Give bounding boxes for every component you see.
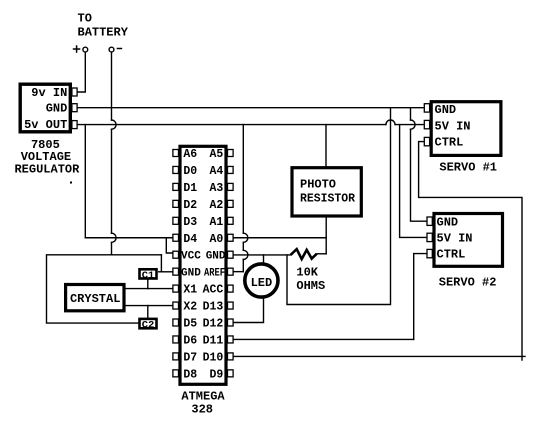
capacitor C1 box [140, 269, 157, 278]
svg-text:AREF: AREF [204, 267, 225, 279]
wire: LED bottom to D12 pin [233, 297, 263, 323]
wire: AREF pin stub to 5V vertical [233, 271, 243, 273]
svg-text:9v IN: 9v IN [31, 86, 67, 100]
voltage regulator U1 box [20, 84, 70, 132]
wire: C1 bottom to X1 wire [147, 280, 149, 289]
photoresistor R2 box [292, 168, 361, 216]
svg-text:RESISTOR: RESISTOR [300, 191, 356, 205]
LED D1 circle [245, 264, 278, 297]
battery terminal + [73, 45, 81, 53]
svg-text:CTRL: CTRL [435, 136, 464, 150]
svg-text:C2: C2 [142, 320, 155, 332]
ATMEGA left pin stubs [173, 150, 179, 377]
svg-text:10K: 10K [296, 265, 318, 279]
battery terminal circle + [83, 47, 88, 52]
svg-text:D4: D4 [183, 233, 197, 246]
svg-text:REGULATOR: REGULATOR [14, 163, 80, 177]
wire: 5V rail down to AREF (hops over A0 wire and GND wire) [242, 125, 244, 272]
regulator pin GND [72, 104, 77, 112]
svg-text:CRYSTAL: CRYSTAL [70, 292, 120, 306]
wire: 5V feed to D4 pin [85, 237, 173, 239]
svg-text:D10: D10 [203, 351, 224, 364]
regulator pin 9v IN [72, 88, 77, 96]
wire: C2 top to X2 wire [147, 306, 149, 318]
svg-text:A0: A0 [209, 233, 223, 246]
svg-text:D1: D1 [183, 182, 197, 195]
wire hop: battery - over 5V rail [112, 120, 117, 129]
svg-text:D3: D3 [183, 216, 197, 229]
wire hop: 5V-AREF vertical over GND wire [243, 250, 248, 259]
resistor R1 10K zigzag [291, 249, 317, 259]
servo1 pin CTRL [424, 137, 429, 145]
svg-text:D0: D0 [183, 165, 197, 178]
ATMEGA right pin labels [203, 148, 224, 381]
svg-text:5V IN: 5V IN [437, 232, 473, 246]
svg-text:X2: X2 [183, 301, 197, 314]
svg-text:D9: D9 [209, 368, 223, 381]
svg-text:A6: A6 [183, 148, 197, 161]
svg-text:A1: A1 [209, 216, 223, 229]
servo2 pin 5V IN [427, 233, 432, 241]
wire: 5V rail down to photoresistor top [325, 125, 327, 166]
crystal Y1 box [66, 285, 124, 311]
svg-text:GND: GND [46, 102, 68, 116]
svg-text:A5: A5 [209, 148, 223, 161]
svg-text:D6: D6 [183, 334, 197, 347]
servo1 pin GND [424, 104, 429, 112]
wire: C1 right to chip GND pin [159, 271, 173, 273]
svg-text:SERVO #2: SERVO #2 [439, 276, 497, 290]
ATMEGA left pin labels [183, 148, 197, 381]
wire: branch down to VCC pin [166, 238, 173, 253]
wire: crystal ground loop (top, left, bottom to C2) [47, 255, 162, 323]
svg-text:D11: D11 [203, 334, 224, 347]
ATMEGA right pin stubs [228, 150, 234, 377]
wire: D10 pin long run [233, 355, 525, 357]
wire: 10K resistor right lead to divider node [317, 253, 327, 255]
svg-text:5v OUT: 5v OUT [24, 118, 67, 132]
servo1 pin 5V IN [424, 120, 429, 128]
svg-text:X1: X1 [183, 284, 197, 297]
svg-text:5V IN: 5V IN [435, 119, 471, 133]
svg-text:ACC: ACC [203, 284, 224, 297]
svg-text:D5: D5 [183, 318, 197, 331]
svg-text:GND: GND [181, 267, 201, 279]
svg-text:GND: GND [206, 250, 226, 262]
servo2 pin GND [427, 217, 432, 225]
wire: ground loop right drop to C1/GND pin wire [160, 255, 162, 272]
wire: servo #2 CTRL to D11 [414, 254, 427, 340]
svg-text:ATMEGA: ATMEGA [181, 389, 225, 403]
svg-text:A2: A2 [209, 199, 223, 212]
svg-text:D13: D13 [203, 301, 224, 314]
svg-text:D7: D7 [183, 351, 197, 364]
servo M2 box [434, 214, 503, 267]
svg-text:SERVO #1: SERVO #1 [439, 160, 497, 174]
wire: 5V drop from 5V rail down at x=85.3 [84, 125, 86, 238]
svg-text:D12: D12 [203, 318, 224, 331]
svg-text:CTRL: CTRL [437, 248, 466, 262]
svg-text:LED: LED [251, 276, 273, 290]
svg-text:GND: GND [435, 103, 457, 117]
battery terminal - [117, 48, 123, 50]
servo2 pin CTRL [427, 249, 432, 257]
svg-text:A4: A4 [209, 165, 223, 178]
svg-text:OHMS: OHMS [296, 279, 325, 293]
wire: ground return (from GND wire down, right, up to GND rail) [287, 108, 391, 305]
svg-text:TO: TO [78, 12, 92, 26]
svg-text:BATTERY: BATTERY [78, 26, 129, 40]
wire: battery - down to crystal ground loop (hops over 5V rail and D4 wire) [111, 52, 113, 255]
wire hop: 5V rail over GND drop vertical [386, 120, 395, 125]
wire: GND rail from regulator GND to servo #1 GND [77, 107, 424, 109]
wire hop: servo2 GND vertical over 5V rail [411, 120, 416, 129]
servo M1 box [431, 102, 501, 156]
regulator pin 5v OUT [72, 121, 77, 129]
svg-text:328: 328 [191, 402, 213, 416]
wire: GND rail down to servo #2 GND (hop over 5V rail) [411, 108, 428, 222]
wire: A0 pin to photoresistor divider node [233, 237, 326, 239]
svg-text:VCC: VCC [181, 250, 201, 262]
wire: servo #1 CTRL to D10 [419, 142, 522, 360]
wire: crystal to X2 pin [126, 305, 173, 307]
ATMEGA 328 IC U2 body [180, 146, 226, 384]
wire hop: 5V-AREF vertical over A0 wire [243, 233, 248, 242]
svg-text:D2: D2 [183, 199, 197, 212]
battery terminal circle - [109, 47, 114, 52]
wire: 5V rail down to servo #2 5V IN [400, 125, 427, 238]
svg-text:C1: C1 [142, 270, 155, 282]
wire: photoresistor bottom to divider node [325, 218, 327, 254]
wire: chip GND (right) to 10K resistor left lead [233, 254, 291, 256]
svg-text:GND: GND [437, 216, 459, 230]
wire: battery + down to 9v IN [77, 52, 85, 92]
wire: crystal to X1 pin [126, 288, 173, 290]
wire: 5V rail from 5v OUT to servo #1 5V IN (hop over x=390.5) [77, 124, 424, 126]
wire hop: battery - over D4 wire [112, 233, 117, 242]
svg-text:D8: D8 [183, 368, 197, 381]
stray dot [70, 182, 72, 184]
wire: LED top stub [263, 255, 265, 264]
capacitor C2 box [140, 319, 157, 328]
svg-text:A3: A3 [209, 182, 223, 195]
wire: D11 pin run [233, 338, 414, 340]
svg-text:PHOTO: PHOTO [300, 178, 336, 192]
